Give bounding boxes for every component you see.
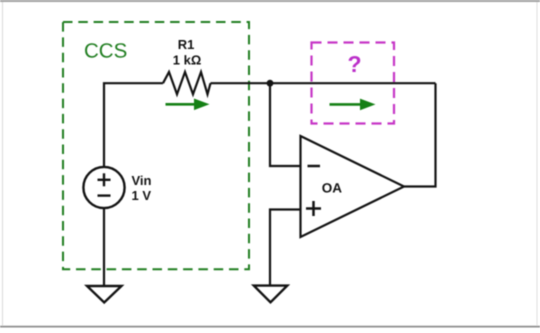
svg-text:OA: OA: [322, 181, 343, 196]
wire op-amp output feedback loop: [404, 83, 436, 186]
value label 1 kΩ: [173, 53, 202, 68]
current direction arrow in unknown block: [330, 99, 376, 111]
ground (left, below Vin): [87, 286, 122, 303]
svg-text:?: ?: [347, 51, 361, 77]
svg-text:1 V: 1 V: [132, 188, 152, 203]
svg-text:Vin: Vin: [132, 173, 152, 188]
wire Vin bottom to ground: [103, 208, 105, 286]
resistor R1: [163, 72, 211, 94]
wire from Vin top to R1 left: [104, 83, 163, 167]
label CCS: [84, 40, 127, 63]
label OA: [322, 181, 343, 196]
label Vin: [132, 173, 152, 188]
wire plus input to ground stub: [270, 210, 301, 286]
CCS region box: [63, 22, 249, 269]
wire junction to inverting input: [270, 83, 301, 166]
op-amp OA: [301, 136, 405, 237]
svg-text:R1: R1: [178, 37, 195, 52]
ground (right, below non-inverting input): [254, 286, 287, 303]
wire from R1 right to feedback corner: [211, 82, 436, 84]
label ?: [347, 51, 361, 77]
node junction at inverting feedback tap: [267, 80, 274, 87]
unknown block ? (magenta box): [312, 43, 395, 124]
value label 1 V: [132, 188, 152, 203]
svg-text:1 kΩ: 1 kΩ: [173, 53, 202, 68]
current direction arrow through R1: [166, 99, 210, 111]
svg-text:CCS: CCS: [84, 40, 127, 63]
label R1: [178, 37, 195, 52]
voltage source Vin: [83, 167, 124, 208]
